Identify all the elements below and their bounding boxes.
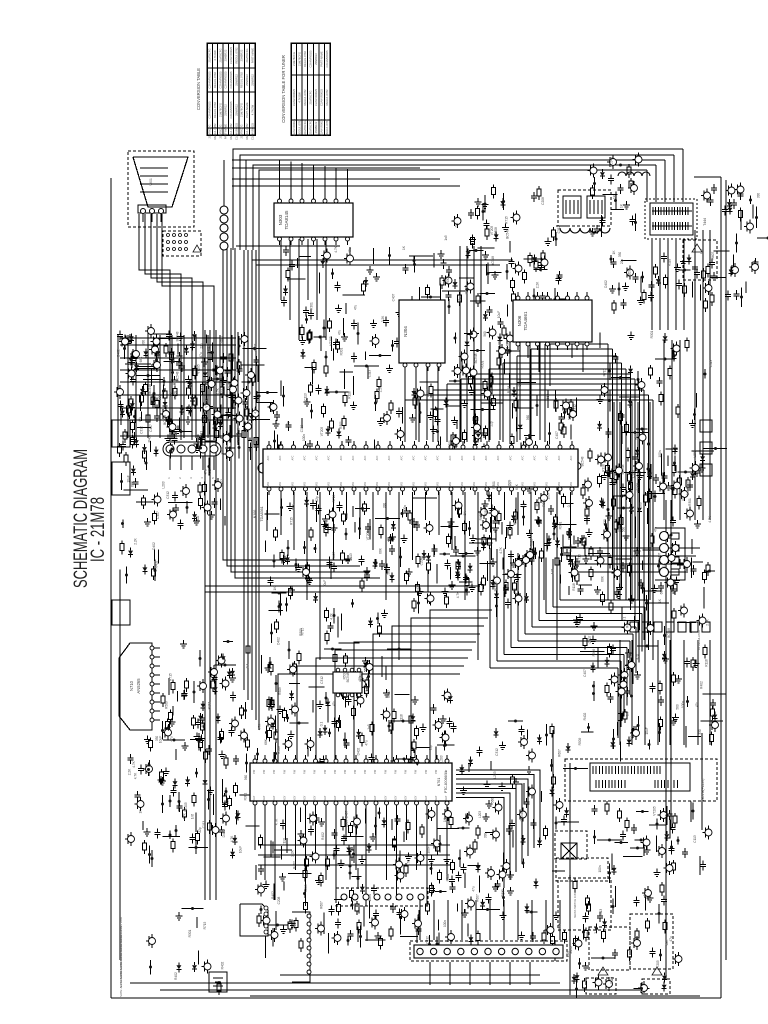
svg-text:C407: C407 xyxy=(149,424,153,432)
svg-text:C407: C407 xyxy=(156,511,160,519)
svg-text:KEY: KEY xyxy=(415,795,418,800)
svg-text:REGUL.0782: REGUL.0782 xyxy=(298,119,302,135)
svg-text:10uF: 10uF xyxy=(226,797,230,804)
svg-text:2.2K: 2.2K xyxy=(379,385,383,392)
svg-text:C2AHVR0025: C2AHVR0025 xyxy=(309,50,313,67)
svg-text:P.W: P.W xyxy=(263,769,266,774)
svg-text:4.7K: 4.7K xyxy=(629,651,633,658)
svg-text:0.1: 0.1 xyxy=(522,503,526,508)
svg-text:R402: R402 xyxy=(321,832,325,840)
svg-text:R301: R301 xyxy=(244,792,248,800)
svg-text:R715: R715 xyxy=(505,216,509,224)
svg-text:100n: 100n xyxy=(345,820,349,827)
svg-text:VID: VID xyxy=(449,482,452,486)
svg-text:560: 560 xyxy=(364,667,368,673)
svg-text:C407: C407 xyxy=(588,635,592,643)
svg-text:10uF: 10uF xyxy=(127,475,131,482)
svg-text:D402: D402 xyxy=(648,550,652,558)
svg-text:4.7K: 4.7K xyxy=(407,859,411,866)
svg-text:AFC: AFC xyxy=(437,455,440,460)
svg-text:330: 330 xyxy=(618,252,622,258)
svg-text:AN5265: AN5265 xyxy=(136,678,141,694)
svg-text:KEY: KEY xyxy=(425,795,428,800)
svg-text:AFC: AFC xyxy=(328,455,331,460)
svg-text:P.W: P.W xyxy=(344,769,347,774)
svg-text:R301: R301 xyxy=(559,521,563,529)
svg-text:KEY: KEY xyxy=(263,795,266,800)
svg-text:560: 560 xyxy=(416,521,420,527)
svg-text:VT205: VT205 xyxy=(205,398,209,408)
svg-text:VT205: VT205 xyxy=(653,806,657,816)
svg-text:REGUL.0782: REGUL.0782 xyxy=(303,89,307,105)
svg-text:R509: R509 xyxy=(508,479,512,487)
svg-text:1n5: 1n5 xyxy=(444,235,448,241)
svg-text:21M78CFG: 21M78CFG xyxy=(208,49,212,63)
svg-text:BC548: BC548 xyxy=(581,456,585,466)
svg-text:C2AHVR0025: C2AHVR0025 xyxy=(229,101,233,118)
svg-text:B+ REGULATOR: B+ REGULATOR xyxy=(697,630,701,650)
svg-text:R509: R509 xyxy=(165,701,169,709)
svg-text:2.2K: 2.2K xyxy=(134,537,138,544)
svg-text:560: 560 xyxy=(483,331,487,337)
svg-text:47u: 47u xyxy=(636,654,640,660)
svg-text:560: 560 xyxy=(526,415,530,421)
svg-text:C2AHVR0025: C2AHVR0025 xyxy=(251,123,255,140)
svg-text:R402: R402 xyxy=(271,891,275,899)
svg-text:R118: R118 xyxy=(602,464,606,472)
svg-text:22p: 22p xyxy=(286,421,290,427)
svg-text:KEY: KEY xyxy=(374,795,377,800)
svg-text:C407: C407 xyxy=(555,431,559,439)
svg-text:VT205: VT205 xyxy=(320,427,324,437)
svg-text:R118: R118 xyxy=(530,539,534,547)
svg-text:AFC: AFC xyxy=(485,455,488,460)
svg-text:BC548: BC548 xyxy=(359,672,363,682)
svg-text:PART-NAME: PART-NAME xyxy=(224,124,228,140)
svg-text:P.W: P.W xyxy=(445,769,448,774)
svg-text:2.2K: 2.2K xyxy=(536,281,540,288)
svg-text:T801 B(+115V): T801 B(+115V) xyxy=(701,779,705,802)
svg-text:1n5: 1n5 xyxy=(700,249,704,255)
svg-text:1n5: 1n5 xyxy=(367,724,371,730)
svg-text:C113: C113 xyxy=(693,835,697,843)
svg-text:T444: T444 xyxy=(703,218,707,226)
svg-text:10uF: 10uF xyxy=(228,383,232,390)
svg-text:KEY: KEY xyxy=(364,795,367,800)
svg-text:AFC: AFC xyxy=(546,455,549,460)
svg-text:C312: C312 xyxy=(573,404,577,412)
svg-text:330: 330 xyxy=(757,193,761,199)
svg-text:C2AHVR0025: C2AHVR0025 xyxy=(208,71,212,88)
svg-text:R715: R715 xyxy=(332,494,336,502)
svg-text:0.1: 0.1 xyxy=(623,617,627,622)
svg-text:21M78CFG: 21M78CFG xyxy=(298,52,302,66)
svg-text:C113: C113 xyxy=(304,393,308,401)
svg-text:VID: VID xyxy=(570,482,573,486)
svg-text:AFC: AFC xyxy=(570,455,573,460)
svg-text:REGUL.0782: REGUL.0782 xyxy=(325,89,329,105)
svg-text:10uF: 10uF xyxy=(239,846,243,853)
svg-text:47u: 47u xyxy=(199,352,203,358)
svg-text:KEY: KEY xyxy=(294,795,297,800)
svg-text:21M78CFG: 21M78CFG xyxy=(309,121,313,135)
svg-text:D402: D402 xyxy=(277,637,281,645)
svg-text:R715: R715 xyxy=(203,921,207,929)
svg-text:22p: 22p xyxy=(490,421,494,427)
svg-text:VT205: VT205 xyxy=(636,483,640,493)
svg-text:C407: C407 xyxy=(502,890,506,898)
svg-text:R509: R509 xyxy=(578,737,582,745)
svg-text:KEY: KEY xyxy=(253,795,256,800)
svg-text:KEY: KEY xyxy=(324,795,327,800)
svg-text:4.7K: 4.7K xyxy=(183,812,187,819)
svg-text:C2AHVR0025: C2AHVR0025 xyxy=(320,119,324,136)
svg-text:C407: C407 xyxy=(583,669,587,677)
svg-text:4.7K: 4.7K xyxy=(254,406,258,413)
svg-text:R301: R301 xyxy=(188,929,192,937)
svg-text:VID: VID xyxy=(497,482,500,486)
svg-text:R118: R118 xyxy=(348,391,352,399)
svg-text:P.W: P.W xyxy=(253,769,256,774)
svg-text:AFC: AFC xyxy=(352,455,355,460)
svg-text:4.7K: 4.7K xyxy=(132,760,136,767)
svg-text:C2AHVR0025: C2AHVR0025 xyxy=(229,47,233,64)
svg-text:4.7K: 4.7K xyxy=(330,612,334,619)
svg-text:VT205: VT205 xyxy=(366,531,370,541)
svg-text:C113: C113 xyxy=(709,360,713,368)
svg-text:VID: VID xyxy=(546,482,549,486)
svg-text:560: 560 xyxy=(387,569,391,575)
svg-text:AFC: AFC xyxy=(316,455,319,460)
svg-text:BC548: BC548 xyxy=(176,331,180,341)
svg-text:1n5: 1n5 xyxy=(172,358,176,364)
svg-text:C208: C208 xyxy=(494,227,498,235)
svg-text:R301: R301 xyxy=(201,719,205,727)
svg-text:C113: C113 xyxy=(283,838,287,846)
svg-text:560: 560 xyxy=(345,513,349,519)
svg-text:C312: C312 xyxy=(166,491,170,499)
svg-text:22p: 22p xyxy=(630,734,634,740)
svg-text:C407: C407 xyxy=(426,389,430,397)
svg-text:N303: N303 xyxy=(278,214,283,225)
svg-text:D402: D402 xyxy=(196,515,200,523)
svg-text:KEY: KEY xyxy=(354,795,357,800)
svg-text:VID: VID xyxy=(364,482,367,486)
svg-text:VID: VID xyxy=(522,482,525,486)
svg-text:47u: 47u xyxy=(208,469,212,475)
svg-text:P.W: P.W xyxy=(314,769,317,774)
svg-text:10uF: 10uF xyxy=(497,311,501,318)
svg-text:R715: R715 xyxy=(578,554,582,562)
svg-text:PART-NAME: PART-NAME xyxy=(245,102,249,118)
svg-text:C2AHVR0025: C2AHVR0025 xyxy=(224,71,228,88)
svg-text:AFC: AFC xyxy=(558,455,561,460)
svg-text:4.7K: 4.7K xyxy=(499,546,503,553)
svg-text:560: 560 xyxy=(491,798,495,804)
svg-text:BC548: BC548 xyxy=(520,811,524,821)
svg-text:R607: R607 xyxy=(479,512,483,520)
svg-text:V901: V901 xyxy=(149,178,153,186)
svg-text:C113: C113 xyxy=(610,977,614,985)
svg-text:0.1: 0.1 xyxy=(567,503,571,508)
svg-text:AFC: AFC xyxy=(449,455,452,460)
svg-text:C113: C113 xyxy=(300,425,304,433)
svg-text:100n: 100n xyxy=(368,894,372,901)
svg-text:C312: C312 xyxy=(518,379,522,387)
svg-text:2.2K: 2.2K xyxy=(128,768,132,775)
svg-text:AFC: AFC xyxy=(279,455,282,460)
svg-text:N306: N306 xyxy=(517,315,522,326)
svg-text:21M78CFG: 21M78CFG xyxy=(245,49,249,63)
svg-text:560: 560 xyxy=(639,502,643,508)
svg-text:VT205: VT205 xyxy=(656,960,660,970)
svg-text:0.1: 0.1 xyxy=(246,664,250,669)
svg-text:47u: 47u xyxy=(204,469,208,475)
svg-text:P.W: P.W xyxy=(385,769,388,774)
svg-text:2.2K: 2.2K xyxy=(318,877,322,884)
svg-text:4.7K: 4.7K xyxy=(334,245,338,252)
svg-text:P.W: P.W xyxy=(415,769,418,774)
svg-text:VID: VID xyxy=(352,482,355,486)
svg-text:4.7K: 4.7K xyxy=(456,591,460,598)
svg-text:R402: R402 xyxy=(155,560,159,568)
svg-text:R607: R607 xyxy=(221,388,225,396)
svg-text:C113: C113 xyxy=(561,427,565,435)
svg-text:25NBR22: 25NBR22 xyxy=(235,104,239,116)
svg-text:VID: VID xyxy=(304,482,307,486)
svg-text:21M78CFG: 21M78CFG xyxy=(208,125,212,139)
svg-text:VID: VID xyxy=(534,482,537,486)
svg-text:68K: 68K xyxy=(379,547,383,554)
svg-text:330: 330 xyxy=(603,519,607,525)
svg-text:P.W: P.W xyxy=(324,769,327,774)
svg-text:P.W: P.W xyxy=(435,769,438,774)
svg-text:VID: VID xyxy=(376,482,379,486)
svg-text:KEY: KEY xyxy=(445,795,448,800)
svg-text:AFC: AFC xyxy=(510,455,513,460)
svg-text:CONVERSION TABLE FOR TUNER: CONVERSION TABLE FOR TUNER xyxy=(281,55,286,123)
svg-text:47u: 47u xyxy=(458,297,462,303)
svg-text:2.2K: 2.2K xyxy=(381,315,385,322)
svg-text:VID: VID xyxy=(461,482,464,486)
svg-text:C2AHVR0025: C2AHVR0025 xyxy=(314,89,318,106)
svg-text:4.7K: 4.7K xyxy=(216,387,220,394)
svg-text:C312: C312 xyxy=(495,748,499,756)
svg-text:R301: R301 xyxy=(536,498,540,506)
svg-text:VID: VID xyxy=(413,482,416,486)
svg-text:C312: C312 xyxy=(201,385,205,393)
svg-text:R715: R715 xyxy=(169,673,173,681)
svg-text:REGUL.0782: REGUL.0782 xyxy=(245,123,249,139)
svg-text:R607: R607 xyxy=(558,749,562,757)
svg-text:BC548: BC548 xyxy=(491,256,495,266)
svg-text:AFC: AFC xyxy=(534,455,537,460)
svg-text:BC548: BC548 xyxy=(506,343,510,353)
svg-text:330: 330 xyxy=(484,833,488,839)
svg-text:BC548: BC548 xyxy=(163,415,167,425)
svg-text:AFC: AFC xyxy=(376,455,379,460)
svg-text:P.W: P.W xyxy=(374,769,377,774)
svg-text:4.7K/2W: 4.7K/2W xyxy=(251,104,255,115)
svg-text:C113: C113 xyxy=(599,909,603,917)
svg-text:R301: R301 xyxy=(339,421,343,429)
svg-text:C113: C113 xyxy=(293,921,297,929)
svg-text:C208: C208 xyxy=(632,470,636,478)
svg-text:R715: R715 xyxy=(301,627,305,635)
svg-text:CONVERSION TABLE: CONVERSION TABLE xyxy=(196,68,201,110)
svg-text:10uF: 10uF xyxy=(323,580,327,587)
svg-text:47u: 47u xyxy=(127,360,131,366)
svg-text:47u: 47u xyxy=(124,432,128,438)
svg-text:C113: C113 xyxy=(368,370,372,378)
svg-text:R607: R607 xyxy=(634,432,638,440)
svg-text:R301: R301 xyxy=(542,499,546,507)
svg-text:47u: 47u xyxy=(654,527,658,533)
svg-text:R607: R607 xyxy=(332,551,336,559)
svg-text:P.W: P.W xyxy=(284,769,287,774)
svg-text:R509: R509 xyxy=(174,390,178,398)
svg-text:L203: L203 xyxy=(628,270,632,277)
svg-text:100n: 100n xyxy=(568,413,572,420)
svg-text:BC548: BC548 xyxy=(148,384,152,394)
svg-text:25NBR22: 25NBR22 xyxy=(314,53,318,65)
svg-text:0.1: 0.1 xyxy=(455,223,459,228)
svg-text:47u: 47u xyxy=(365,740,369,746)
svg-text:R402: R402 xyxy=(416,584,420,592)
svg-text:C407: C407 xyxy=(254,343,258,351)
svg-text:R118: R118 xyxy=(705,659,709,667)
svg-text:VID: VID xyxy=(388,482,391,486)
svg-text:BC548: BC548 xyxy=(621,464,625,474)
svg-text:100n: 100n xyxy=(658,450,662,457)
svg-text:VID: VID xyxy=(473,482,476,486)
svg-text:100n: 100n xyxy=(302,434,306,441)
svg-text:AFC: AFC xyxy=(461,455,464,460)
svg-text:R301: R301 xyxy=(650,330,654,338)
svg-text:21M78CFG: 21M78CFG xyxy=(303,121,307,135)
svg-text:IC - 21M78: IC - 21M78 xyxy=(88,497,109,562)
svg-text:R301: R301 xyxy=(492,481,496,489)
svg-text:100n: 100n xyxy=(443,920,447,927)
svg-text:BC548: BC548 xyxy=(237,428,241,438)
svg-text:10uF: 10uF xyxy=(159,736,163,743)
svg-text:REGUL.0782: REGUL.0782 xyxy=(213,123,217,139)
svg-text:BC548: BC548 xyxy=(365,686,369,696)
svg-text:10uF: 10uF xyxy=(645,727,649,734)
svg-text:1n5: 1n5 xyxy=(191,814,195,820)
svg-text:R402: R402 xyxy=(221,961,225,969)
svg-text:68K: 68K xyxy=(131,480,135,487)
svg-text:VID: VID xyxy=(316,482,319,486)
svg-text:R607: R607 xyxy=(220,335,224,343)
svg-text:47u: 47u xyxy=(138,417,142,423)
svg-text:C2AHVR0025: C2AHVR0025 xyxy=(219,71,223,88)
svg-text:100n: 100n xyxy=(174,432,178,439)
svg-text:22p: 22p xyxy=(513,588,517,594)
svg-text:N710: N710 xyxy=(129,680,134,691)
svg-text:2.2K: 2.2K xyxy=(291,849,295,856)
svg-text:C113: C113 xyxy=(586,932,590,940)
svg-text:N100: N100 xyxy=(253,510,257,519)
svg-text:R607: R607 xyxy=(711,251,715,259)
svg-text:L203: L203 xyxy=(304,884,308,891)
svg-text:R118: R118 xyxy=(686,481,690,489)
svg-text:VID: VID xyxy=(292,482,295,486)
svg-text:R118: R118 xyxy=(484,509,488,517)
svg-text:MAINS SWITCH 115V: MAINS SWITCH 115V xyxy=(573,892,577,918)
svg-text:VID: VID xyxy=(328,482,331,486)
svg-text:C2AHVR0025: C2AHVR0025 xyxy=(208,101,212,118)
svg-text:100n: 100n xyxy=(598,865,602,872)
svg-text:R607: R607 xyxy=(387,690,391,698)
svg-text:P.W: P.W xyxy=(294,769,297,774)
svg-text:4.7K: 4.7K xyxy=(258,723,262,730)
svg-text:L203: L203 xyxy=(478,811,482,818)
svg-text:AFC: AFC xyxy=(401,455,404,460)
svg-text:560: 560 xyxy=(388,537,392,543)
svg-text:KEY: KEY xyxy=(314,795,317,800)
svg-text:AFC: AFC xyxy=(522,455,525,460)
svg-text:C312: C312 xyxy=(557,225,561,233)
svg-text:C312: C312 xyxy=(320,676,324,684)
svg-text:R402: R402 xyxy=(446,873,450,881)
svg-text:330: 330 xyxy=(383,503,387,509)
svg-text:P.W: P.W xyxy=(354,769,357,774)
svg-text:22p: 22p xyxy=(315,496,319,502)
svg-text:PART-NAME: PART-NAME xyxy=(320,51,324,67)
svg-text:P.W: P.W xyxy=(405,769,408,774)
svg-text:25NBR22: 25NBR22 xyxy=(240,49,244,61)
svg-text:REGUL.0782: REGUL.0782 xyxy=(213,102,217,118)
svg-text:R118: R118 xyxy=(400,714,404,722)
svg-text:100n: 100n xyxy=(403,505,407,512)
svg-text:R301: R301 xyxy=(481,360,485,368)
svg-text:2.2K: 2.2K xyxy=(566,950,570,957)
svg-text:REGUL.0782: REGUL.0782 xyxy=(240,72,244,88)
svg-text:R715: R715 xyxy=(603,368,607,376)
svg-text:C208: C208 xyxy=(541,197,545,205)
svg-text:68K: 68K xyxy=(515,483,519,490)
svg-text:AFC: AFC xyxy=(388,455,391,460)
svg-text:C208: C208 xyxy=(420,557,424,565)
svg-text:560: 560 xyxy=(244,775,248,781)
svg-text:C113: C113 xyxy=(349,553,353,561)
svg-text:VID: VID xyxy=(558,482,561,486)
svg-text:68K: 68K xyxy=(264,738,268,745)
svg-text:R118: R118 xyxy=(668,259,672,267)
svg-text:P.W: P.W xyxy=(395,769,398,774)
svg-text:BC548: BC548 xyxy=(346,672,350,682)
svg-text:R402: R402 xyxy=(207,346,211,354)
svg-text:D402: D402 xyxy=(222,829,226,837)
svg-text:100n: 100n xyxy=(568,875,572,882)
svg-text:KEY: KEY xyxy=(344,795,347,800)
svg-text:C407: C407 xyxy=(658,552,662,560)
svg-text:C312: C312 xyxy=(426,936,430,944)
svg-text:1n5: 1n5 xyxy=(551,569,555,575)
svg-text:L203: L203 xyxy=(440,755,444,762)
svg-text:21M78CFG: 21M78CFG xyxy=(240,103,244,117)
svg-text:R118: R118 xyxy=(572,583,576,591)
svg-text:R715: R715 xyxy=(290,517,294,525)
svg-text:TDA8361: TDA8361 xyxy=(260,506,264,521)
svg-text:VID: VID xyxy=(425,482,428,486)
svg-text:REGUL.0782: REGUL.0782 xyxy=(213,72,217,88)
svg-text:AFC: AFC xyxy=(497,455,500,460)
svg-text:KEY: KEY xyxy=(395,795,398,800)
svg-text:22p: 22p xyxy=(429,745,433,751)
svg-text:R509: R509 xyxy=(277,746,281,754)
